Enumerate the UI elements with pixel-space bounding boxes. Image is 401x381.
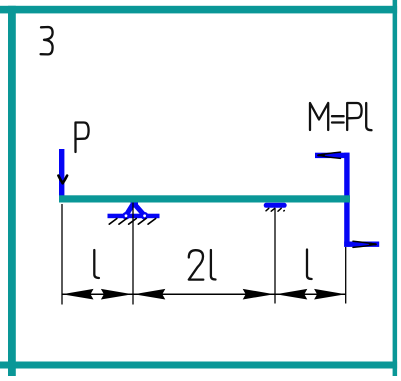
dim arrow tip x=62 pointing left [62, 289, 94, 300]
label 3 (problem number) [41, 27, 53, 54]
moment top arrowhead (left) [318, 152, 340, 158]
extension line at support A (x=133.5) [132, 203, 134, 305]
beam [59, 195, 350, 202]
moment bottom arrowhead (right) [353, 241, 376, 247]
force P arrow [58, 149, 67, 196]
dim arrow tip x=132.4 pointing right [101, 289, 132, 300]
extension line at beam left end (x=62) [61, 204, 63, 305]
moment M=Pl couple bracket [315, 153, 379, 247]
label P [76, 123, 89, 153]
dim arrow tip x=133.8 pointing left [134, 289, 166, 300]
frame bottom bar [0, 362, 397, 369]
dim arrow tip x=345.6 pointing right [314, 289, 346, 300]
extension line at moment (x=345.7) [345, 247, 347, 304]
pin support A [108, 202, 160, 218]
roller support B hatching [266, 208, 284, 211]
roller support B [264, 203, 287, 208]
frame left bar [8, 6, 16, 376]
dim arrow tip x=275.8 pointing left [276, 289, 308, 300]
frame top bar [0, 6, 397, 14]
pin support A ground hatching [109, 219, 156, 225]
label l (left span) [94, 250, 99, 278]
dim arrow tip x=274.2 pointing right [243, 289, 275, 300]
label 2l (middle span) [189, 250, 216, 280]
extension line at support B (x=275) [274, 208, 276, 304]
dimension line [62, 293, 346, 295]
frame right bar [393, 0, 398, 376]
label l (right span) [307, 250, 312, 280]
label M=Pl [310, 103, 372, 130]
